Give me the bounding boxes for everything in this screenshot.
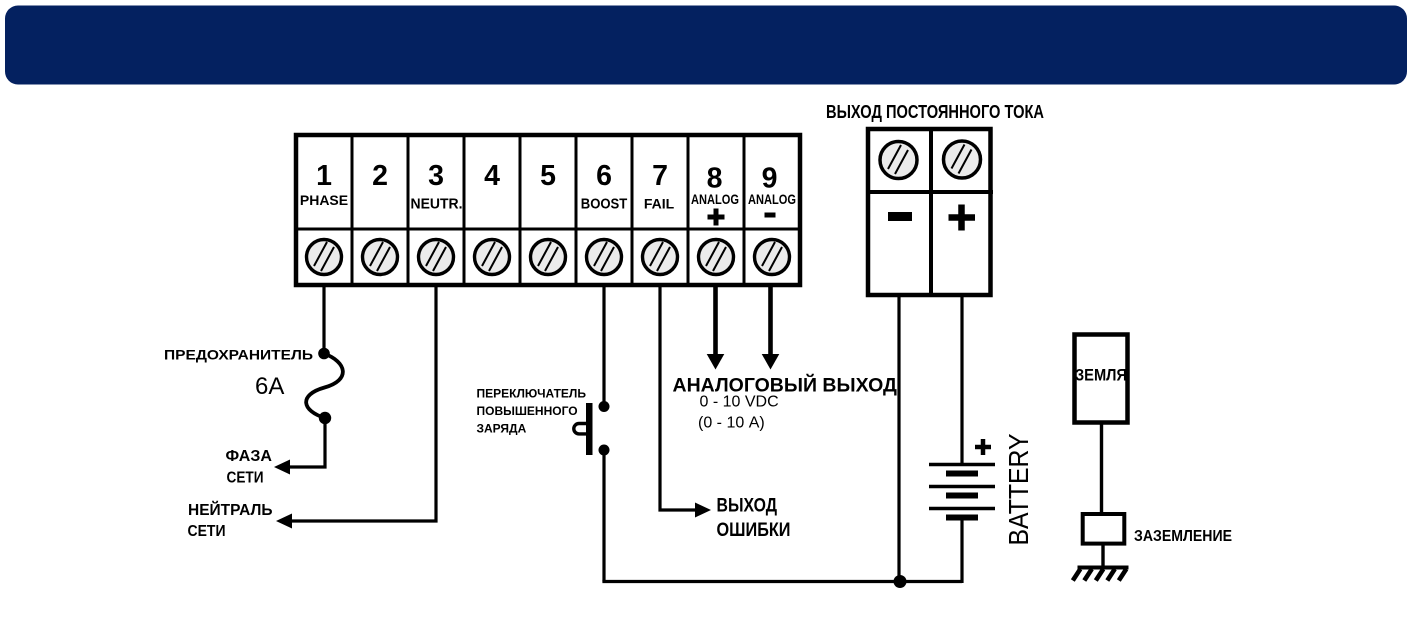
arrowhead neutral	[276, 514, 292, 529]
wire earth box to grounding box	[1100, 425, 1103, 514]
dc minus sign	[888, 212, 912, 221]
junction dot	[894, 575, 907, 588]
wire bottom bus	[602, 580, 962, 583]
screw terminal 9	[755, 240, 790, 275]
terminal 8 label ANALOG +	[691, 163, 739, 226]
arrowhead phase	[274, 460, 290, 475]
earth box ЗЕМЛЯ	[1075, 335, 1128, 423]
screw terminal 8	[699, 240, 734, 275]
svg-text:6А: 6А	[255, 373, 284, 400]
svg-text:ВЫХОД ПОСТОЯННОГО ТОКА: ВЫХОД ПОСТОЯННОГО ТОКА	[826, 102, 1044, 122]
wire fuse to phase arrow	[288, 418, 325, 467]
svg-text:ПЕРЕКЛЮЧАТЕЛЬ: ПЕРЕКЛЮЧАТЕЛЬ	[477, 387, 587, 401]
svg-text:9: 9	[762, 163, 778, 195]
screw dc plus	[944, 141, 981, 178]
wire terminal 1 to fuse	[322, 286, 325, 353]
fuse F1	[306, 348, 343, 424]
terminal 2 label	[372, 160, 388, 192]
screw terminal 2	[363, 240, 398, 275]
svg-text:3: 3	[428, 160, 444, 192]
svg-text:0 - 10 VDC: 0 - 10 VDC	[700, 394, 779, 411]
wire battery negative riser	[960, 518, 963, 584]
svg-text:ANALOG: ANALOG	[691, 191, 739, 207]
svg-text:FAIL: FAIL	[644, 196, 675, 212]
screw terminal 7	[643, 240, 678, 275]
label АНАЛОГОВЫЙ ВЫХОД 0-10 VDC (0-10 A)	[673, 373, 897, 432]
screw terminal 3	[419, 240, 454, 275]
arrowhead analog +	[707, 354, 725, 370]
svg-text:ANALOG: ANALOG	[748, 191, 796, 207]
svg-text:BATTERY: BATTERY	[1003, 433, 1034, 545]
wire dc plus to battery	[960, 297, 963, 464]
boost switch S1	[574, 401, 610, 456]
svg-text:4: 4	[484, 160, 500, 192]
svg-text:BOOST: BOOST	[581, 197, 628, 213]
wire terminal 6 to boost switch	[602, 286, 605, 406]
svg-text:ЗАРЯДА: ЗАРЯДА	[477, 422, 527, 436]
earth ground symbol	[1073, 568, 1129, 581]
svg-text:ПОВЫШЕННОГО: ПОВЫШЕННОГО	[477, 404, 578, 418]
svg-text:2: 2	[372, 160, 388, 192]
wire dc minus to bus	[897, 297, 900, 582]
label ФАЗА СЕТИ	[226, 448, 273, 487]
svg-text:PHASE: PHASE	[300, 192, 348, 208]
label НЕЙТРАЛЬ СЕТИ	[188, 500, 273, 540]
terminal 9 label ANALOG -	[748, 163, 796, 216]
terminal 4 label	[484, 160, 500, 192]
wire terminal 3 to neutral arrow	[290, 286, 436, 521]
svg-text:NEUTR.: NEUTR.	[411, 197, 463, 213]
svg-text:ФАЗА: ФАЗА	[226, 448, 273, 465]
wire boost switch to bottom bus	[602, 450, 605, 582]
svg-text:6: 6	[596, 160, 612, 192]
svg-text:НЕЙТРАЛЬ: НЕЙТРАЛЬ	[188, 500, 273, 519]
terminal 5 label	[540, 160, 556, 192]
screw dc minus	[880, 142, 917, 179]
dc output terminal block	[866, 127, 993, 297]
grounding box	[1083, 514, 1125, 544]
battery BT1	[929, 465, 995, 518]
arrowhead analog -	[762, 354, 780, 370]
wire analog - (terminal 9)	[768, 285, 773, 355]
screw terminal 6	[587, 240, 622, 275]
svg-text:ВЫХОД: ВЫХОД	[717, 496, 778, 517]
dc plus sign	[949, 205, 976, 231]
svg-text:ПРЕДОХРАНИТЕЛЬ: ПРЕДОХРАНИТЕЛЬ	[164, 348, 313, 363]
svg-text:ЗАЗЕМЛЕНИЕ: ЗАЗЕМЛЕНИЕ	[1134, 528, 1232, 545]
terminal 6 label BOOST	[581, 160, 628, 213]
screw terminal 1	[307, 240, 342, 275]
svg-text:5: 5	[540, 160, 556, 192]
svg-text:СЕТИ: СЕТИ	[227, 470, 264, 487]
terminal 3 label NEUTR.	[411, 160, 463, 213]
svg-text:СЕТИ: СЕТИ	[188, 523, 226, 540]
terminal block body	[296, 135, 800, 285]
wire analog + (terminal 8)	[713, 285, 718, 355]
wire terminal 7 to fail arrow	[660, 286, 697, 510]
svg-text:7: 7	[652, 160, 668, 192]
screw terminal 5	[531, 240, 566, 275]
label ВЫХОД ОШИБКИ	[717, 496, 791, 542]
terminal 1 label PHASE	[300, 160, 348, 208]
screw terminal 4	[475, 240, 510, 275]
arrowhead fail output	[695, 503, 711, 518]
battery plus mark	[975, 439, 991, 455]
svg-text:1: 1	[316, 160, 332, 192]
svg-text:(0 - 10 А): (0 - 10 А)	[698, 415, 765, 432]
wire grounding box to earth symbol	[1101, 545, 1104, 568]
terminal 7 label FAIL	[644, 160, 675, 212]
svg-text:ОШИБКИ: ОШИБКИ	[717, 520, 791, 541]
svg-text:8: 8	[707, 163, 723, 195]
label ПЕРЕКЛЮЧАТЕЛЬ ПОВЫШЕННОГО ЗАРЯДА	[477, 387, 587, 436]
svg-text:ЗЕМЛЯ: ЗЕМЛЯ	[1075, 367, 1127, 385]
title banner	[5, 6, 1407, 85]
